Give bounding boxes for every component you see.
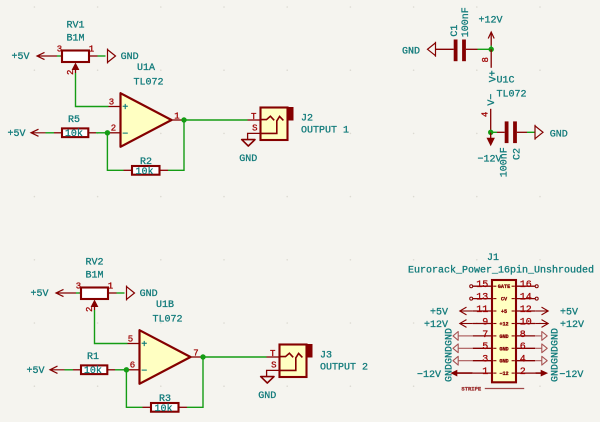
svg-text:V−: V−	[487, 94, 498, 106]
svg-text:U1C: U1C	[497, 76, 515, 87]
svg-text:GND: GND	[550, 130, 568, 141]
wire R5 to inverting input	[96, 132, 109, 134]
svg-text:STRIPE: STRIPE	[461, 385, 482, 392]
GND label left of J1	[453, 344, 473, 353]
svg-text:4: 4	[481, 112, 491, 117]
svg-text:+5: +5	[501, 309, 507, 315]
svg-text:+5V: +5V	[430, 308, 448, 319]
+5V global label at RV1 pin 3	[12, 52, 58, 63]
svg-text:+5V: +5V	[560, 308, 578, 319]
svg-text:−12V: −12V	[559, 370, 583, 381]
wire C1 to V+ node	[478, 48, 492, 50]
svg-text:OUTPUT 2: OUTPUT 2	[320, 362, 368, 373]
svg-text:−12: −12	[499, 371, 508, 377]
svg-text:16: 16	[520, 280, 532, 291]
GND flag left of C1	[402, 42, 436, 58]
wire J3 sleeve to GND	[267, 370, 280, 376]
svg-text:12: 12	[520, 305, 532, 316]
GND label left of J1	[453, 356, 473, 365]
audio jack J3 OUTPUT 2	[267, 344, 369, 377]
svg-text:R1: R1	[87, 352, 99, 363]
svg-text:J1: J1	[487, 253, 499, 264]
svg-text:8: 8	[481, 57, 491, 62]
svg-text:GND: GND	[499, 346, 508, 352]
J1 pin name +12	[493, 322, 515, 328]
svg-text:C2: C2	[512, 148, 523, 160]
svg-text:1: 1	[174, 112, 179, 122]
svg-text:T: T	[251, 112, 257, 122]
+5V label left of J1	[430, 307, 473, 318]
svg-text:OUTPUT 1: OUTPUT 1	[301, 125, 349, 136]
ground symbol at J3 sleeve	[261, 377, 274, 383]
resistor R5 10k	[54, 115, 96, 140]
junction at op-amp output	[200, 354, 205, 359]
STRIPE marking	[461, 385, 524, 392]
svg-text:RV1: RV1	[66, 21, 84, 32]
svg-text:8: 8	[520, 330, 526, 341]
J1 pin 7 (GND) left	[473, 330, 492, 341]
svg-text:U1A: U1A	[137, 63, 155, 74]
svg-text:+5V: +5V	[12, 52, 30, 63]
svg-text:+12V: +12V	[560, 320, 584, 331]
svg-text:10: 10	[520, 317, 532, 328]
J1 pin 2 (-12) right	[516, 367, 535, 378]
J1 pin name GND	[493, 346, 515, 352]
GND global label at RV1 pin 1	[98, 49, 139, 64]
resistor R1 10k	[73, 352, 115, 377]
svg-text:5: 5	[128, 334, 133, 344]
svg-text:10k: 10k	[154, 403, 172, 415]
wire +5V to R1	[65, 369, 74, 371]
svg-text:100nF: 100nF	[461, 7, 472, 37]
J1 pin 8 (GND) right	[516, 330, 535, 341]
-12V power symbol	[477, 132, 501, 165]
J1 pin 5 (GND) left	[473, 342, 492, 353]
potentiometer RV2 B1M	[76, 258, 117, 313]
svg-text:GND: GND	[499, 334, 508, 340]
GND label right of J1	[535, 356, 547, 365]
svg-text:−12V: −12V	[417, 370, 441, 381]
svg-text:C1: C1	[450, 25, 461, 37]
svg-text:T: T	[270, 349, 276, 359]
svg-text:+: +	[141, 340, 147, 351]
wire +5V to R5	[46, 132, 55, 134]
J1 pin 11 (+5) left	[473, 305, 492, 316]
junction at op-amp output	[181, 117, 186, 122]
unconnected flag right	[535, 285, 538, 288]
J1 pin name GND	[493, 334, 515, 340]
op-amp U1B TL072	[128, 300, 203, 384]
+12V label right of J1	[535, 320, 584, 331]
svg-text:6: 6	[130, 361, 135, 371]
op-amp U1A TL072	[109, 63, 184, 147]
wire R3 to output node	[187, 357, 203, 407]
capacitor C1 100nF	[436, 7, 478, 61]
svg-text:2: 2	[111, 124, 116, 134]
svg-text:S: S	[252, 124, 257, 134]
unconnected flag left	[470, 285, 473, 288]
junction V- node	[488, 130, 493, 135]
feedback resistor R2 10k	[124, 157, 169, 178]
J1 pin name +5	[493, 309, 515, 315]
svg-text:100nF: 100nF	[499, 147, 510, 177]
J1 pin 9 (+12) left	[473, 317, 492, 328]
wire RV2 wiper to op-amp non-inverting input	[95, 310, 128, 344]
wire +12V to V+ node	[490, 46, 492, 50]
J1 pin name GATE	[493, 284, 515, 290]
J1 pin 3 (GND) left	[473, 355, 492, 366]
+12V label left of J1	[424, 320, 473, 331]
wire R2 to output node	[168, 120, 184, 170]
feedback resistor R3 10k	[143, 394, 188, 415]
-12V label left of J1	[417, 370, 473, 381]
svg-text:GND: GND	[140, 289, 158, 300]
op-amp U1C power pins	[481, 49, 527, 130]
svg-text:GND: GND	[499, 359, 508, 365]
svg-text:U1B: U1B	[156, 300, 174, 311]
svg-text:3: 3	[57, 45, 62, 55]
svg-text:+5V: +5V	[8, 129, 26, 140]
svg-text:10k: 10k	[135, 166, 153, 178]
svg-text:+12: +12	[499, 322, 508, 328]
svg-text:2: 2	[520, 367, 526, 378]
J1 pin 14 (CV) right	[516, 293, 535, 304]
svg-text:4: 4	[520, 355, 526, 366]
svg-text:TL072: TL072	[153, 314, 183, 325]
-12V label right of J1	[535, 370, 583, 381]
svg-text:CV: CV	[501, 297, 508, 303]
svg-text:GND: GND	[258, 391, 276, 402]
wire C2 to GND flag	[527, 131, 535, 133]
svg-text:1: 1	[482, 367, 488, 378]
wire output to J2 tip	[184, 119, 248, 121]
svg-text:10k: 10k	[65, 128, 83, 140]
svg-text:TL072: TL072	[134, 77, 164, 88]
svg-text:5: 5	[482, 342, 488, 353]
+5V label right of J1	[535, 307, 578, 318]
junction at inverting input	[124, 367, 129, 372]
svg-text:2: 2	[66, 70, 76, 75]
svg-text:S: S	[271, 361, 276, 371]
svg-text:GND: GND	[402, 46, 420, 57]
wire inverting input to R2	[107, 133, 123, 171]
svg-text:GND: GND	[239, 154, 257, 165]
J1 pin 16 (GATE) right	[516, 280, 535, 291]
GND label right of J1	[535, 332, 547, 341]
junction V+ node	[489, 47, 494, 52]
svg-text:Eurorack_Power_16pin_Unshroude: Eurorack_Power_16pin_Unshrouded	[408, 265, 594, 277]
svg-text:3: 3	[76, 282, 81, 292]
audio jack J2 OUTPUT 1	[248, 107, 350, 140]
svg-text:1: 1	[108, 282, 113, 292]
svg-text:+12V: +12V	[478, 15, 502, 26]
wire output to J3 tip	[203, 356, 267, 358]
J1 pin 10 (+12) right	[516, 317, 535, 328]
svg-text:14: 14	[520, 293, 532, 304]
svg-text:3: 3	[109, 97, 114, 107]
svg-text:J2: J2	[301, 113, 313, 124]
svg-text:9: 9	[482, 317, 488, 328]
svg-text:10k: 10k	[84, 365, 102, 377]
wire V- node to C2	[491, 131, 497, 133]
wire inverting input to R3	[126, 370, 142, 408]
wire +5V to RV2 pin 3	[76, 292, 80, 294]
svg-text:−12V: −12V	[477, 154, 501, 165]
wire +5V to RV1 pin 3	[57, 55, 61, 57]
wire RV1 wiper to op-amp non-inverting input	[76, 73, 109, 107]
svg-text:11: 11	[476, 305, 488, 316]
svg-text:13: 13	[476, 293, 488, 304]
svg-text:+5V: +5V	[27, 366, 45, 377]
J1 pin 15 (GATE) left	[473, 280, 492, 291]
GND label left of J1	[453, 332, 473, 341]
unconnected flag right	[535, 297, 538, 300]
J1 pin 4 (GND) right	[516, 355, 535, 366]
wire V- pin to node	[490, 130, 492, 132]
svg-text:B1M: B1M	[85, 271, 103, 282]
ground symbol at J2 sleeve	[242, 140, 255, 146]
svg-text:B1M: B1M	[66, 34, 84, 45]
svg-text:J3: J3	[320, 350, 332, 361]
svg-text:+: +	[122, 103, 128, 114]
svg-text:3: 3	[482, 355, 488, 366]
svg-text:GATE: GATE	[498, 284, 510, 290]
J1 pin name CV	[493, 297, 515, 303]
+5V global label at R1	[27, 366, 65, 377]
J1 pin name -12	[493, 371, 515, 377]
svg-text:+5V: +5V	[31, 289, 49, 300]
J1 pin 12 (+5) right	[516, 305, 535, 316]
unconnected flag left	[470, 297, 473, 300]
J1 pin name GND	[493, 359, 515, 365]
capacitor C2 100nF	[497, 121, 527, 177]
GND global label at RV2 pin 1	[117, 286, 158, 301]
potentiometer RV1 B1M	[57, 21, 98, 76]
svg-text:2: 2	[85, 307, 95, 312]
svg-text:6: 6	[520, 342, 526, 353]
svg-text:1: 1	[89, 45, 94, 55]
+5V global label at R5	[8, 129, 46, 140]
svg-text:R5: R5	[68, 115, 80, 126]
GND label right of J1	[535, 344, 547, 353]
svg-text:−: −	[141, 366, 147, 377]
svg-text:RV2: RV2	[85, 258, 103, 269]
svg-text:15: 15	[476, 280, 488, 291]
J1 pin 1 (-12) left	[473, 367, 492, 378]
svg-text:−: −	[122, 129, 128, 140]
wire J2 sleeve to GND	[248, 133, 261, 139]
J1 pin 13 (CV) left	[473, 293, 492, 304]
+5V global label at RV2 pin 3	[31, 289, 77, 300]
GND flag right of C2	[535, 125, 568, 141]
svg-text:TL072: TL072	[497, 89, 527, 100]
junction at inverting input	[105, 130, 110, 135]
wire R1 to inverting input	[115, 369, 128, 371]
+12V power symbol	[478, 15, 502, 45]
J1 pin 6 (GND) right	[516, 342, 535, 353]
svg-text:GND: GND	[121, 52, 139, 63]
connector J1 Eurorack_Power_16pin_Unshrouded	[408, 253, 594, 382]
svg-text:7: 7	[193, 349, 198, 359]
svg-text:7: 7	[482, 330, 488, 341]
